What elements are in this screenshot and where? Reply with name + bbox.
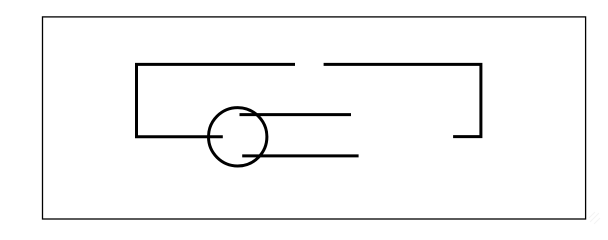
wire: left loop (top-left horizontal, left vertical, base lead into transistor) — [137, 64, 296, 136]
wire: top-right horizontal, right vertical and bottom-right stub — [324, 64, 481, 136]
emitter lead (lower horizontal line from inside circle to the right) — [242, 154, 358, 157]
collector lead (upper horizontal line from inside circle to the right) — [240, 113, 352, 116]
faint resize-grip artifact outside bottom-right corner — [589, 212, 600, 224]
transistor Q1 envelope (circle) — [209, 108, 267, 166]
